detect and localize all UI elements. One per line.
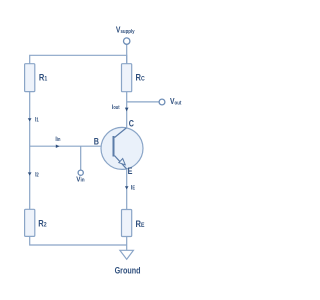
svg-text:C: C <box>129 119 134 129</box>
svg-text:E: E <box>128 166 133 176</box>
svg-text:B: B <box>94 137 99 147</box>
svg-text:Ground: Ground <box>115 266 141 276</box>
svg-text:Vin: Vin <box>76 176 84 184</box>
